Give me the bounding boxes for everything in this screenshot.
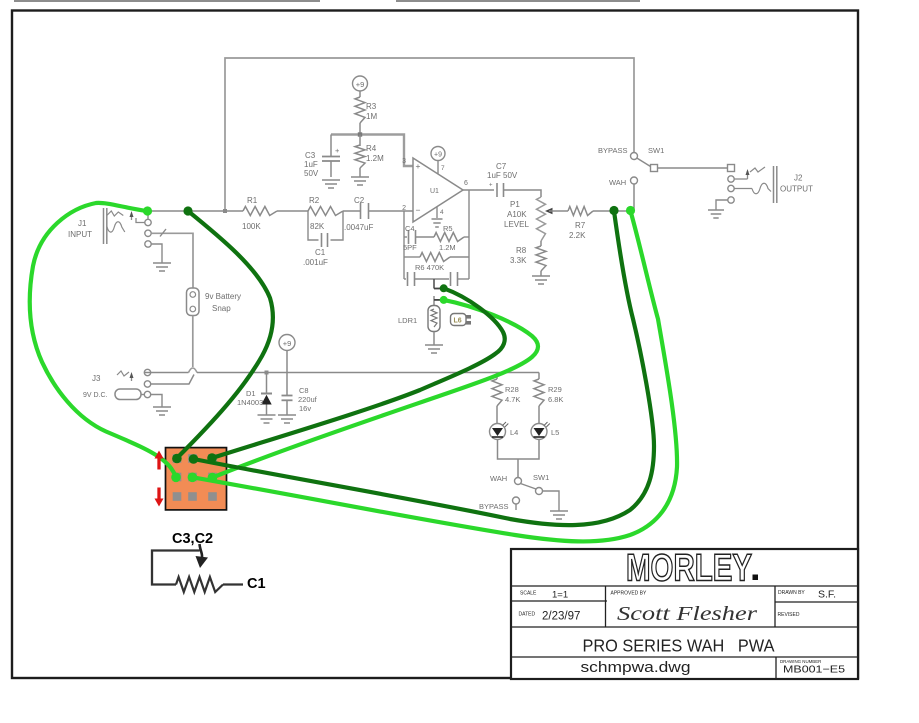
wire (mod) dark green feedback hairpin <box>212 288 505 458</box>
capacitor (feedback left) <box>404 278 406 280</box>
svg-text:R28: R28 <box>505 385 519 394</box>
potentiometer P1 <box>537 197 546 241</box>
svg-text:R7: R7 <box>575 221 586 230</box>
node feedback tap (dark) <box>440 284 448 292</box>
wire tip to input net <box>147 211 149 219</box>
ground (C3) <box>322 180 340 188</box>
svg-text:1uF: 1uF <box>304 160 318 169</box>
connector J3 <box>144 369 150 375</box>
power +9 (U1 pin7) <box>431 147 445 161</box>
node input junction <box>223 209 227 213</box>
capacitor (feedback right) <box>450 272 452 286</box>
svg-text:C7: C7 <box>496 162 507 171</box>
svg-text:R4: R4 <box>366 144 377 153</box>
wire <box>517 459 519 478</box>
ground (LDR1) <box>425 345 443 353</box>
resistor R6 <box>404 256 420 258</box>
switch SW1 bypass contact <box>631 153 638 160</box>
svg-text:MORLEY: MORLEY <box>626 548 752 590</box>
svg-text:4: 4 <box>440 209 444 216</box>
svg-text:2: 2 <box>402 205 406 212</box>
svg-text:DATED: DATED <box>519 612 536 618</box>
node (light green pin) <box>208 473 218 483</box>
resistor R5 <box>434 233 464 242</box>
switch SW1 common <box>536 488 543 495</box>
svg-text:D1: D1 <box>246 389 256 398</box>
wire <box>359 91 361 97</box>
wire sleeve to ground <box>151 244 162 263</box>
svg-text:L4: L4 <box>510 428 518 437</box>
LED L4 <box>490 424 506 440</box>
ground (R8) <box>532 276 550 284</box>
svg-text:P1: P1 <box>510 200 520 209</box>
svg-text:PRO SERIES WAH PWA: PRO SERIES WAH PWA <box>583 636 775 656</box>
switch SW1 bypass contact <box>513 497 520 504</box>
node R3/R4 junction <box>358 132 362 136</box>
svg-text:7: 7 <box>441 165 445 172</box>
resistor R29 <box>538 373 540 380</box>
wire pin 7 <box>437 161 439 174</box>
resistor R7 <box>568 207 593 216</box>
svg-text:R2: R2 <box>309 196 320 205</box>
svg-text:J1: J1 <box>78 219 87 228</box>
svg-text:WAH: WAH <box>490 474 507 483</box>
svg-text:C1: C1 <box>247 576 266 592</box>
node D1 <box>265 371 269 375</box>
svg-text:1.2M: 1.2M <box>439 243 456 252</box>
svg-text:J3: J3 <box>92 374 101 383</box>
pad <box>173 454 182 463</box>
svg-text:C1: C1 <box>315 248 326 257</box>
node wah riser (light) <box>626 206 635 215</box>
node input tip (light) <box>143 206 152 215</box>
pad <box>188 454 197 463</box>
wire <box>343 210 360 212</box>
svg-text:L6: L6 <box>454 318 462 325</box>
svg-text:L5: L5 <box>551 428 559 437</box>
wire LED bottoms <box>498 440 540 460</box>
svg-text:+: + <box>335 146 340 155</box>
svg-text:OUTPUT: OUTPUT <box>780 185 813 194</box>
svg-text:+9: +9 <box>434 152 442 159</box>
switch SW1 arm <box>521 484 537 490</box>
op-amp U1 <box>413 158 463 222</box>
svg-text:WAH: WAH <box>609 178 626 187</box>
jack tip spring (J1) <box>107 211 124 216</box>
capacitor C1 <box>308 211 343 240</box>
jack spring (J3) <box>117 371 129 376</box>
svg-text:R3: R3 <box>366 102 377 111</box>
svg-text:R8: R8 <box>516 246 527 255</box>
wire U1 output <box>463 189 494 191</box>
wire <box>433 332 435 346</box>
svg-text:+9: +9 <box>356 80 365 89</box>
wire ring to battery <box>151 233 193 288</box>
wire (mod) light green LDR hairpin <box>212 300 538 478</box>
wire <box>543 491 560 511</box>
svg-text:2.2K: 2.2K <box>569 231 586 240</box>
svg-text:MB001−E5: MB001−E5 <box>783 664 845 676</box>
svg-text:LDR1: LDR1 <box>398 316 417 325</box>
wire <box>359 123 361 135</box>
resistor R28 <box>496 373 498 380</box>
svg-text:3.3K: 3.3K <box>510 256 527 265</box>
wire <box>144 372 188 374</box>
wire <box>734 178 748 180</box>
svg-text:Scott Flesher: Scott Flesher <box>617 604 758 625</box>
ground (D1) <box>258 415 276 423</box>
svg-text:U1: U1 <box>430 188 439 195</box>
svg-text:R29: R29 <box>548 385 562 394</box>
connector J2 <box>728 165 735 172</box>
svg-text:C2: C2 <box>354 196 365 205</box>
svg-text:6.8K: 6.8K <box>548 395 563 404</box>
svg-text:LEVEL: LEVEL <box>504 220 529 229</box>
pad <box>188 492 197 501</box>
switch SW1 wah contact (LED) <box>515 478 522 485</box>
svg-text:SCALE: SCALE <box>520 591 537 597</box>
ground (C8) <box>278 415 296 423</box>
wire <box>223 583 243 585</box>
lamp L6 <box>451 314 467 326</box>
title block <box>511 549 858 679</box>
ground (SW1) <box>550 511 568 519</box>
svg-text:3: 3 <box>402 158 406 165</box>
svg-text:J2: J2 <box>794 174 803 183</box>
dc barrel (J3) <box>115 389 141 400</box>
svg-text:schmpwa.dwg: schmpwa.dwg <box>581 660 691 676</box>
jack tip contact arrow (J1) <box>131 214 133 220</box>
node wah (dark) <box>609 206 618 215</box>
node input (dark) <box>183 206 192 215</box>
svg-text:R5: R5 <box>443 224 453 233</box>
battery B1 9v snap <box>187 288 200 316</box>
annotation pot sketch wire <box>152 551 200 585</box>
ground (J2) <box>708 210 724 218</box>
svg-text:C4: C4 <box>405 224 415 233</box>
wire <box>151 395 162 408</box>
capacitor C7 <box>496 183 498 197</box>
svg-text:A10K: A10K <box>507 210 527 219</box>
connector footswitch PCB (orange) <box>166 448 227 510</box>
power +9 (R3 supply) <box>353 76 368 91</box>
svg-text:50V: 50V <box>304 169 319 178</box>
svg-text:.001uF: .001uF <box>303 258 328 267</box>
svg-text:.0047uF: .0047uF <box>344 223 373 232</box>
switch SW1 arm <box>637 158 651 167</box>
connector J1 <box>103 208 105 244</box>
jack tip spring (J2) <box>750 167 765 172</box>
wire battery to J3 rail <box>192 316 194 368</box>
wire (mod) light green left loop <box>30 203 176 478</box>
wire <box>734 188 752 190</box>
svg-text:9v Battery: 9v Battery <box>205 292 241 301</box>
ground (U1 pin4) <box>432 219 443 227</box>
wire bias node <box>331 135 413 167</box>
capacitor C8 <box>286 373 288 396</box>
svg-text:1=1: 1=1 <box>552 590 568 601</box>
svg-text:+: + <box>416 161 421 171</box>
svg-text:1.2M: 1.2M <box>366 154 384 163</box>
LED L5 <box>531 424 547 440</box>
wire <box>277 210 308 212</box>
resistor R2 <box>308 207 343 216</box>
resistor R3 <box>355 97 365 123</box>
svg-text:16v: 16v <box>299 404 311 413</box>
annotation red arrow down <box>157 488 160 500</box>
ground (R4) <box>351 177 369 185</box>
wire <box>658 167 729 169</box>
svg-text:C3: C3 <box>305 151 316 160</box>
wire feedback tap <box>433 279 435 289</box>
svg-text:R6 470K: R6 470K <box>415 263 444 272</box>
annotation red arrow up <box>157 458 160 470</box>
svg-text:C3,C2: C3,C2 <box>172 531 213 547</box>
node (light green pin) <box>171 473 181 483</box>
svg-text:+9: +9 <box>283 339 292 348</box>
pad <box>208 492 217 501</box>
svg-text:−: − <box>416 205 421 215</box>
pad <box>208 454 217 463</box>
svg-text:SW1: SW1 <box>533 473 549 482</box>
annotation arrow <box>200 544 203 557</box>
wire <box>286 351 288 373</box>
svg-text:S.F.: S.F. <box>818 589 836 601</box>
svg-text:1M: 1M <box>366 112 377 121</box>
svg-text:2/23/97: 2/23/97 <box>542 611 580 623</box>
pad <box>208 473 217 482</box>
ground (J1) <box>153 263 171 271</box>
wire <box>151 375 194 385</box>
wire hop tick <box>160 229 166 237</box>
capacitor C4 <box>404 236 407 238</box>
wire top rail <box>225 58 634 211</box>
svg-text:SW1: SW1 <box>648 146 664 155</box>
wire feedback right rail <box>468 190 470 279</box>
pad <box>173 473 182 482</box>
wire <box>593 210 634 212</box>
svg-text:1N4003: 1N4003 <box>237 398 263 407</box>
svg-text:APPROVED BY: APPROVED BY <box>611 591 648 597</box>
capacitor C2 <box>360 203 362 219</box>
capacitor C3 <box>330 135 332 157</box>
annotation pot sketch resistor <box>176 577 223 592</box>
wire (mod) light green long loop <box>193 211 678 541</box>
svg-text:BYPASS: BYPASS <box>598 146 627 155</box>
node (dark green pin) <box>172 454 182 464</box>
pad <box>188 473 197 482</box>
wire WAH riser <box>633 184 635 211</box>
svg-text:82K: 82K <box>310 222 325 231</box>
svg-text:1uF 50V: 1uF 50V <box>487 171 518 180</box>
wire feedback left rail <box>403 211 405 279</box>
switch SW1 wah contact <box>631 177 638 184</box>
svg-text:INPUT: INPUT <box>68 230 92 239</box>
wire (mod) dark green long loop <box>194 211 655 525</box>
wire <box>504 190 542 197</box>
wire (mod) dark green input curve <box>177 211 273 458</box>
svg-text:REVISED: REVISED <box>778 612 800 618</box>
node LDR top (light) <box>440 296 448 304</box>
pad <box>173 492 182 501</box>
svg-text:DRAWN BY: DRAWN BY <box>778 590 805 596</box>
ground (J3) <box>153 407 171 415</box>
svg-text:220uf: 220uf <box>298 395 318 404</box>
diode D1 <box>266 373 268 395</box>
wire <box>716 200 728 210</box>
resistor R1 <box>243 207 277 216</box>
resistor R4 <box>359 135 361 147</box>
wire hop <box>189 368 198 373</box>
node (dark green pin) <box>189 454 199 464</box>
scan artifact top edge <box>14 0 640 2</box>
jack ring spring (J2) <box>752 183 771 194</box>
photocell LDR1 <box>428 306 440 332</box>
jack body (J2) <box>773 166 775 203</box>
wire power rail <box>197 372 539 374</box>
svg-text:9V D.C.: 9V D.C. <box>83 392 108 399</box>
node (dark green pin) <box>207 453 217 463</box>
svg-text:+: + <box>489 183 493 189</box>
svg-text:6: 6 <box>464 180 468 187</box>
svg-text:5PF: 5PF <box>403 243 417 252</box>
wire pin 4 <box>436 207 438 218</box>
svg-text:100K: 100K <box>242 222 261 231</box>
jack ring spring (J1) <box>107 222 125 232</box>
wire input net <box>148 210 243 212</box>
svg-text:BYPASS: BYPASS <box>479 502 508 511</box>
resistor R8 <box>540 241 542 246</box>
wire <box>369 210 414 212</box>
svg-text:R1: R1 <box>247 196 258 205</box>
power +9 (rail) <box>279 335 295 351</box>
svg-text:C8: C8 <box>299 386 309 395</box>
svg-text:Snap: Snap <box>212 304 231 313</box>
node (light green pin) <box>188 473 198 483</box>
svg-text:4.7K: 4.7K <box>505 395 520 404</box>
